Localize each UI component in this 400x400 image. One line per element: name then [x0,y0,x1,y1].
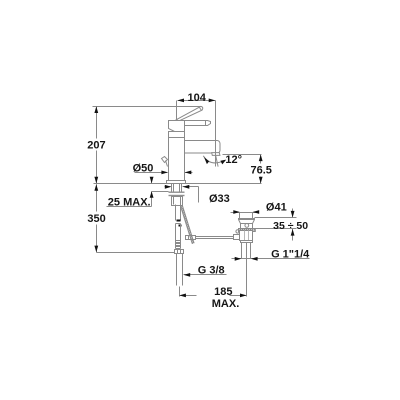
svg-text:207: 207 [87,140,105,152]
svg-text:350: 350 [87,213,105,225]
svg-text:G 1"1/4: G 1"1/4 [271,249,310,261]
svg-text:35 ÷ 50: 35 ÷ 50 [273,220,308,232]
svg-text:MAX.: MAX. [212,298,240,310]
svg-text:76.5: 76.5 [250,165,271,177]
svg-text:12°: 12° [225,154,242,166]
svg-text:Ø41: Ø41 [266,201,287,213]
svg-text:Ø33: Ø33 [209,193,230,205]
svg-text:25 MAX.: 25 MAX. [108,197,151,209]
svg-text:104: 104 [188,92,207,104]
svg-text:Ø50: Ø50 [133,163,154,175]
svg-text:185: 185 [214,286,232,298]
svg-text:G 3/8: G 3/8 [198,265,225,277]
